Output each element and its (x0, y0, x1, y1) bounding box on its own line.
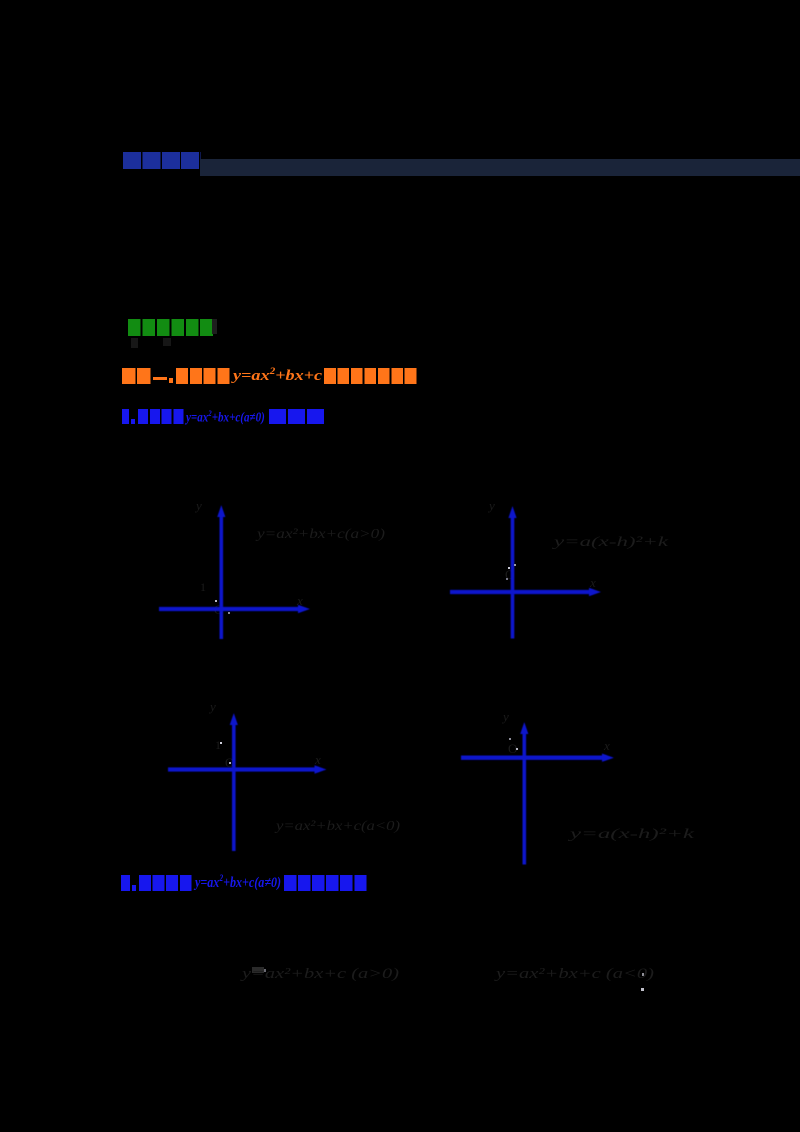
graph 3 x-axis (168, 767, 319, 771)
graph 4 x-axis arrow (602, 754, 614, 762)
graph 1 y-axis (220, 514, 224, 639)
svg-text:y=ax²+bx+c(a>0): y=ax²+bx+c(a>0) (255, 527, 386, 542)
orange module line: CJK part B (176, 368, 231, 384)
orange module line: CJK part A (122, 368, 152, 384)
svg-text:1: 1 (215, 738, 221, 752)
svg-text:y=a(x-h)²+k: y=a(x-h)²+k (551, 535, 670, 550)
svg-text:y=a(x-h)²+k: y=a(x-h)²+k (566, 827, 695, 842)
heading title text (blue CJK blob) (123, 152, 201, 169)
svg-text:x: x (589, 575, 596, 590)
blue item 1 line: comma (131, 419, 135, 424)
white speck near graph 3 origin (229, 762, 231, 764)
graph 2 y-axis arrow (508, 506, 516, 518)
svg-text:y=ax²+bx+c (a<0): y=ax²+bx+c (a<0) (493, 966, 654, 982)
faint residue right of green heading (212, 319, 217, 334)
graph 2 x-axis arrow (589, 588, 601, 596)
blue item 1 line: formula (186, 408, 265, 427)
orange module line: CJK part C (324, 368, 418, 384)
svg-text:y: y (501, 709, 509, 724)
graph 1 x-axis (159, 607, 301, 611)
blue item 1 line: CJK part A (122, 409, 129, 424)
graph 1 x-axis arrow (298, 605, 310, 613)
svg-text:y: y (487, 498, 495, 513)
graph 2 x-axis (450, 590, 593, 594)
svg-text:y=ax²+bx+c (a>0): y=ax²+bx+c (a>0) (239, 966, 399, 982)
svg-text:y: y (194, 498, 202, 513)
graph 3 x-axis arrow (315, 765, 327, 773)
white speck near graph 2 origin (508, 567, 510, 569)
blue item 2 line: CJK chars (139, 875, 193, 891)
white speck near graph 1 origin (215, 600, 217, 602)
graph 2 y-axis (511, 514, 515, 639)
blue item 2 line: formula (195, 874, 281, 892)
graph 3 y-axis (232, 721, 236, 851)
graph 4 x-axis (461, 756, 606, 760)
blue item 2 line: CJK part A (121, 875, 130, 891)
svg-text:y=ax²+bx+c(a<0): y=ax²+bx+c(a<0) (274, 819, 401, 834)
graph 4 y-axis arrow (520, 722, 528, 734)
svg-text:O: O (508, 741, 517, 756)
orange module line: formula (233, 367, 322, 385)
green bracket heading (128, 319, 213, 336)
graph 1 y-axis arrow (217, 505, 225, 517)
svg-text:1: 1 (200, 580, 206, 594)
orange module line: dash char (153, 377, 167, 380)
graph 3 y-axis arrow (230, 713, 238, 725)
section rule bar (dark navy) (200, 159, 800, 176)
svg-text:y: y (208, 699, 216, 714)
svg-text:x: x (314, 752, 321, 767)
blue item 2 line: CJK tail (284, 875, 368, 891)
svg-text:x: x (603, 738, 610, 753)
white speck near graph 4 origin (516, 748, 518, 750)
orange module line: comma char (169, 378, 173, 383)
blue item 1 line: CJK tail (269, 409, 325, 424)
bright speck bottom-left formula (263, 969, 266, 972)
graph 4 y-axis (522, 730, 526, 865)
blue item 2 line: comma (132, 885, 136, 891)
bright speck bottom-right formula (642, 973, 644, 976)
blue item 1 line: CJK chars (138, 409, 184, 424)
